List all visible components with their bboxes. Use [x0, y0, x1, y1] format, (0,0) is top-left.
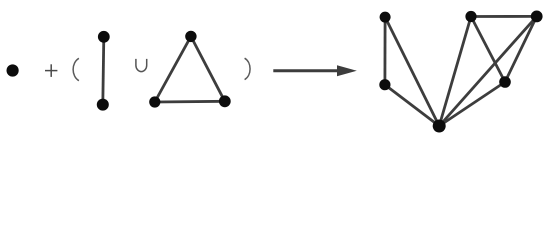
arrow head [337, 65, 357, 76]
K3 bottom-left vertex [149, 96, 160, 107]
edge TR-RM [505, 16, 537, 82]
K2 top vertex [98, 31, 110, 43]
edge B-TM [439, 17, 471, 127]
K3 bottom-right vertex [219, 95, 231, 107]
K3 apex vertex [185, 31, 196, 42]
result graph top-left vertex [380, 12, 391, 23]
edge TL-LM [383, 17, 386, 85]
result graph top-right vertex [531, 11, 543, 23]
result graph right-middle vertex [499, 76, 511, 88]
edge B-RM [439, 82, 505, 126]
result graph edges [385, 16, 537, 126]
triangle K3 edges [155, 36, 225, 102]
single vertex (left operand) [7, 64, 19, 76]
edge TM-TR [471, 15, 537, 18]
edge TM-RM [471, 17, 505, 83]
edge B-LM [385, 85, 439, 126]
opening parenthesis [73, 58, 79, 80]
union symbol [136, 59, 147, 72]
edge B-TR [439, 16, 537, 126]
plus operator [45, 64, 57, 77]
K2 bottom vertex [97, 99, 109, 111]
result graph top-middle vertex [465, 11, 476, 22]
result graph bottom vertex [433, 120, 446, 133]
closing parenthesis [245, 58, 250, 79]
result graph left-middle vertex [379, 79, 390, 90]
arrow shaft [273, 69, 341, 72]
K2 edge (wire between its two vertices) [103, 37, 104, 105]
edge B-TL [385, 17, 439, 126]
